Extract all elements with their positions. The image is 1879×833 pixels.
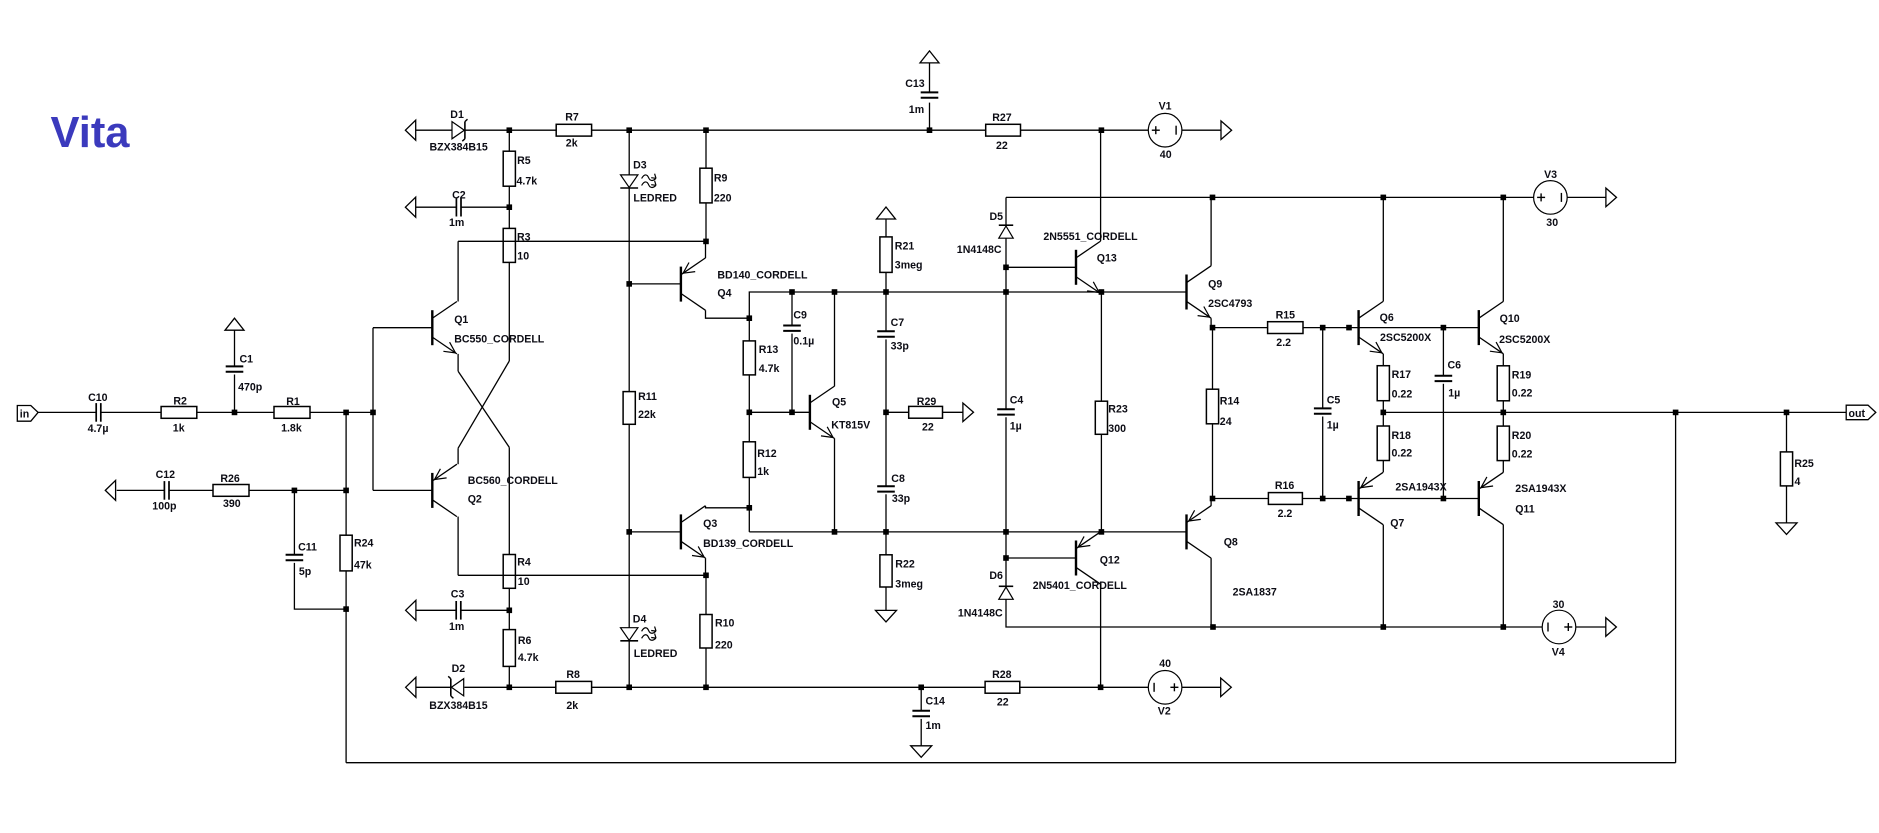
svg-text:BC550_CORDELL: BC550_CORDELL bbox=[454, 333, 545, 345]
svg-text:C11: C11 bbox=[298, 542, 317, 554]
svg-text:BZX384B15: BZX384B15 bbox=[430, 141, 488, 153]
wire C2 to R5/R3 node bbox=[461, 206, 509, 208]
wire bottom rail left bbox=[416, 686, 451, 688]
junction Q9 emitter / R14 / R15 bbox=[1210, 325, 1216, 331]
svg-text:Vita: Vita bbox=[51, 109, 131, 157]
svg-text:220: 220 bbox=[715, 640, 733, 652]
svg-text:R25: R25 bbox=[1794, 458, 1814, 470]
output port flag out bbox=[1846, 405, 1876, 420]
transistor Q6 2SC5200X bbox=[1357, 310, 1359, 345]
svg-text:1N4148C: 1N4148C bbox=[957, 244, 1002, 256]
svg-text:BD139_CORDELL: BD139_CORDELL bbox=[703, 538, 794, 550]
junction base column node bbox=[370, 410, 376, 416]
svg-text:Q12: Q12 bbox=[1100, 555, 1120, 567]
junction bottom rail / R10 bbox=[703, 685, 709, 691]
wire R9 to R3 row bbox=[705, 203, 707, 242]
svg-text:R2: R2 bbox=[173, 396, 187, 408]
svg-text:0.1µ: 0.1µ bbox=[793, 335, 814, 347]
wire V4 to arrow bbox=[1576, 626, 1606, 628]
junction C11 top bbox=[292, 488, 298, 494]
svg-text:BD140_CORDELL: BD140_CORDELL bbox=[717, 270, 808, 282]
wire R13 to Q5 base node bbox=[748, 375, 750, 442]
junction bottom rail / C14 bbox=[918, 685, 924, 691]
svg-text:1m: 1m bbox=[449, 621, 464, 633]
ground below R22 bbox=[876, 610, 897, 622]
svg-text:30: 30 bbox=[1553, 599, 1565, 611]
junction C6 bottom bbox=[1441, 496, 1447, 502]
resistor R16 2.2 bbox=[1268, 493, 1302, 505]
wire arrow to C3 bbox=[416, 609, 456, 611]
wire R23 to Vbe rail bbox=[1100, 434, 1102, 532]
wire R23 top bbox=[1100, 292, 1102, 401]
wire D5 to C4 bbox=[1005, 238, 1007, 409]
wire Q2 collector down bbox=[457, 517, 459, 576]
svg-text:R15: R15 bbox=[1276, 309, 1296, 321]
wire C11 vertical bbox=[293, 490, 295, 554]
capacitor C9 0.1u bbox=[783, 325, 801, 327]
resistor R14 24 bbox=[1206, 389, 1218, 424]
svg-text:0.22: 0.22 bbox=[1512, 388, 1533, 400]
svg-text:Q9: Q9 bbox=[1208, 278, 1222, 290]
wire C9 top bbox=[791, 292, 793, 326]
svg-text:R29: R29 bbox=[917, 396, 937, 408]
wire R14 to R16 node bbox=[1212, 424, 1214, 499]
svg-text:C9: C9 bbox=[793, 310, 807, 322]
wire C5 top bbox=[1322, 328, 1324, 409]
svg-text:2SC5200X: 2SC5200X bbox=[1499, 334, 1550, 346]
svg-text:22: 22 bbox=[997, 697, 1009, 709]
wire Q2 collector row y=575 bbox=[458, 574, 706, 576]
wire R25 top bbox=[1786, 412, 1788, 452]
wire C6 top bbox=[1442, 328, 1444, 376]
wire D2 to R8 bbox=[464, 686, 556, 688]
capacitor C6 1u bbox=[1435, 375, 1453, 377]
svg-text:1m: 1m bbox=[926, 720, 941, 732]
wire feedback bottom long horizontal y=762.7 bbox=[346, 762, 1676, 764]
wire Q12 base bbox=[1006, 557, 1076, 559]
wire C7 top bbox=[885, 292, 887, 331]
svg-text:V2: V2 bbox=[1158, 706, 1171, 718]
capacitor C5 1u bbox=[1314, 407, 1332, 409]
svg-text:1µ: 1µ bbox=[1327, 419, 1339, 431]
capacitor C1 470p bbox=[226, 365, 244, 367]
wire Q8 emitter stub up bbox=[1210, 499, 1212, 506]
terminal arrow V3 right bbox=[1606, 188, 1617, 207]
junction output row / R19 / R20 bbox=[1501, 410, 1507, 416]
svg-text:D4: D4 bbox=[633, 614, 647, 626]
svg-text:1µ: 1µ bbox=[1010, 420, 1022, 432]
wire R10 to bottom rail bbox=[705, 648, 707, 687]
svg-text:D5: D5 bbox=[990, 211, 1004, 223]
junction top rail / R5 column bbox=[507, 127, 513, 133]
wire R16 to Q7/Q11 bases bbox=[1302, 498, 1478, 500]
wire C8 to Vbe rail bbox=[885, 494, 887, 532]
svg-text:2SA1837: 2SA1837 bbox=[1233, 587, 1277, 599]
junction 30V rail / Q10 collector bbox=[1501, 195, 1507, 201]
junction Q7 base bbox=[1346, 496, 1352, 502]
wire C13 to top rail bbox=[929, 103, 931, 131]
wire R20 to Q11 emitter bbox=[1502, 461, 1504, 473]
wire C1 to input row bbox=[234, 375, 236, 413]
terminal arrow R29 right bbox=[963, 403, 974, 422]
junction C9 bottom bbox=[789, 410, 795, 416]
wire C4 to D6 bbox=[1005, 417, 1007, 586]
svg-text:C10: C10 bbox=[88, 392, 108, 404]
svg-text:2k: 2k bbox=[566, 700, 578, 712]
junction Vbe rail / Q5 emitter bbox=[832, 529, 838, 535]
wire feedback node vertical x=346 bbox=[345, 412, 347, 535]
svg-text:1µ: 1µ bbox=[1448, 388, 1460, 400]
svg-text:470p: 470p bbox=[238, 382, 263, 394]
wire C8 top bbox=[885, 412, 887, 486]
wire Q13 collector to top rail bbox=[1100, 130, 1102, 241]
wire R10 column bbox=[705, 575, 707, 614]
wire in to C10 bbox=[38, 411, 96, 413]
svg-text:4.7k: 4.7k bbox=[517, 176, 538, 188]
junction top rail / Q13 collector column bbox=[1099, 127, 1105, 133]
wire top 30V rail y=197.4 bbox=[1006, 196, 1534, 198]
wire feedback vertical from output x=1675.6 bbox=[1675, 412, 1677, 762]
resistor R13 4.7k bbox=[743, 341, 755, 375]
svg-text:390: 390 bbox=[223, 498, 241, 510]
junction top rail / D3 column bbox=[626, 127, 632, 133]
wire D3 top rail to LED bbox=[628, 130, 630, 175]
wire Q8 collector down to -30V rail bbox=[1210, 558, 1212, 627]
svg-text:R12: R12 bbox=[757, 448, 777, 460]
svg-text:30: 30 bbox=[1546, 217, 1558, 229]
wire Q6 emitter to R17 bbox=[1382, 354, 1384, 366]
svg-text:33p: 33p bbox=[891, 340, 910, 352]
junction C5 bottom bbox=[1320, 496, 1326, 502]
svg-text:R22: R22 bbox=[895, 558, 915, 570]
svg-text:R13: R13 bbox=[759, 344, 779, 356]
svg-text:C5: C5 bbox=[1327, 395, 1341, 407]
svg-text:22: 22 bbox=[922, 421, 934, 433]
svg-text:V4: V4 bbox=[1552, 646, 1565, 658]
junction Q4 base node bbox=[626, 281, 632, 287]
wire C5 bottom bbox=[1322, 417, 1324, 499]
wire R25 to ground bbox=[1786, 486, 1788, 523]
wire Q9 collector up to 30V rail bbox=[1210, 197, 1212, 265]
power arrow above C1 bbox=[225, 318, 244, 330]
ground below R25 bbox=[1776, 523, 1797, 535]
svg-text:R28: R28 bbox=[992, 669, 1012, 681]
capacitor C7 33p bbox=[877, 330, 895, 332]
wire R11 to Q3 base and D4 bbox=[628, 424, 630, 627]
wire Q7 collector to -30V rail bbox=[1382, 525, 1384, 627]
wire R28 to V2 bbox=[1020, 686, 1149, 688]
capacitor C8 33p bbox=[877, 485, 895, 487]
wire C7 to R29 node bbox=[885, 339, 887, 412]
junction C6 top bbox=[1441, 325, 1447, 331]
svg-text:Q7: Q7 bbox=[1390, 518, 1404, 530]
svg-text:BC560_CORDELL: BC560_CORDELL bbox=[468, 475, 559, 487]
wire Q9 emitter stub down bbox=[1210, 318, 1212, 327]
junction R29 node bbox=[883, 410, 889, 416]
junction Q5 base row / R13 / R12 bbox=[747, 410, 753, 416]
svg-text:out: out bbox=[1849, 408, 1866, 420]
wire Q10 collector to 30V rail bbox=[1502, 197, 1504, 301]
voltage source V2 40 bbox=[1148, 671, 1182, 705]
wire R14 column bbox=[1212, 328, 1214, 390]
junction R3 row / R9 / Q4 emitter bbox=[703, 239, 709, 245]
svg-text:22k: 22k bbox=[638, 409, 656, 421]
junction Q12 base node bbox=[1003, 555, 1009, 561]
transistor Q7 2SA1943X (PNP) bbox=[1357, 481, 1359, 516]
transistor Q11 2SA1943X (PNP) bbox=[1478, 481, 1480, 516]
svg-text:33p: 33p bbox=[892, 493, 911, 505]
diode D1 BZX384B15 (zener) bbox=[452, 122, 464, 139]
junction C5 top bbox=[1320, 325, 1326, 331]
junction mid rail / Q13 emitter bbox=[1099, 289, 1105, 295]
svg-text:R14: R14 bbox=[1220, 395, 1240, 407]
transistor Q1 BC550_CORDELL bbox=[431, 310, 433, 345]
svg-text:Q1: Q1 bbox=[454, 314, 468, 326]
junction C1 node bbox=[232, 410, 238, 416]
junction Q13 base node bbox=[1003, 265, 1009, 271]
svg-text:Q3: Q3 bbox=[703, 518, 717, 530]
svg-text:D2: D2 bbox=[452, 663, 466, 675]
capacitor C4 1u bbox=[997, 408, 1015, 410]
wire R22 to ground bbox=[885, 587, 887, 610]
wire R12 to Vbe rail bbox=[748, 477, 750, 532]
svg-text:LEDRED: LEDRED bbox=[633, 193, 677, 205]
wire C12 to R26 bbox=[169, 489, 213, 491]
resistor R22 3meg bbox=[880, 555, 892, 587]
resistor R25 4 bbox=[1780, 452, 1792, 486]
svg-text:220: 220 bbox=[714, 192, 732, 204]
junction bottom rail / Q12 collector bbox=[1098, 685, 1104, 691]
resistor R15 2.2 bbox=[1268, 322, 1303, 334]
svg-text:24: 24 bbox=[1220, 416, 1232, 428]
svg-text:2.2: 2.2 bbox=[1276, 337, 1291, 349]
svg-text:1k: 1k bbox=[173, 423, 185, 435]
junction mid rail / D5 column bbox=[1003, 289, 1009, 295]
capacitor C10 4.7u bbox=[95, 403, 97, 422]
capacitor C13 1m bbox=[921, 91, 939, 93]
wire R8 to R28 along bottom rail bbox=[592, 686, 986, 688]
wire R26 to feedback node bbox=[249, 489, 346, 491]
resistor R21 3meg bbox=[880, 237, 892, 273]
resistor R28 22 bbox=[985, 681, 1020, 693]
svg-text:2N5551_CORDELL: 2N5551_CORDELL bbox=[1043, 231, 1138, 243]
junction bottom rail / R6 bbox=[507, 685, 513, 691]
svg-text:C1: C1 bbox=[240, 353, 254, 365]
svg-text:C8: C8 bbox=[891, 473, 905, 485]
resistor R8 2k bbox=[556, 681, 592, 693]
svg-text:R24: R24 bbox=[354, 537, 374, 549]
svg-text:C14: C14 bbox=[926, 696, 946, 708]
wire Q11 collector to -30V rail bbox=[1502, 525, 1504, 627]
svg-text:40: 40 bbox=[1160, 149, 1172, 161]
capacitor C3 1m bbox=[455, 601, 457, 620]
junction Vbe rail / D5-C4 column bbox=[1003, 529, 1009, 535]
diode D6 1N4148C bbox=[999, 585, 1013, 587]
svg-text:Q10: Q10 bbox=[1500, 313, 1520, 325]
svg-text:4: 4 bbox=[1795, 476, 1801, 488]
wire Vbe rail y=531.9 bbox=[749, 531, 1186, 533]
resistor R18 0.22 bbox=[1377, 426, 1389, 461]
svg-text:10: 10 bbox=[517, 250, 529, 262]
wire D3 to R11 bbox=[628, 188, 630, 392]
svg-text:R7: R7 bbox=[565, 112, 579, 124]
wire R17 to output row bbox=[1382, 401, 1384, 426]
resistor R2 1k bbox=[161, 407, 197, 419]
wire Q3 emitter stub bbox=[705, 558, 707, 575]
wire arrow to C2 bbox=[416, 206, 457, 208]
svg-text:1k: 1k bbox=[757, 466, 769, 478]
LED D4 LEDRED bbox=[621, 628, 638, 641]
svg-text:10: 10 bbox=[518, 576, 530, 588]
resistor R24 47k bbox=[340, 535, 352, 571]
svg-text:40: 40 bbox=[1159, 658, 1171, 670]
transistor Q2 BC560_CORDELL bbox=[431, 473, 433, 508]
wire R3 bottom to crossover bbox=[508, 262, 510, 361]
svg-text:R18: R18 bbox=[1392, 430, 1412, 442]
svg-text:R10: R10 bbox=[715, 618, 735, 630]
svg-text:C12: C12 bbox=[156, 469, 176, 481]
wire R1 to base column bbox=[310, 411, 373, 413]
resistor R26 390 bbox=[213, 485, 249, 497]
wire Q3 base bbox=[629, 531, 681, 533]
wire output row y=412.4 bbox=[1383, 411, 1846, 413]
svg-text:R20: R20 bbox=[1512, 430, 1532, 442]
terminal arrow V1 right bbox=[1221, 121, 1232, 140]
resistor R4 10 (in Q1 emitter path) bbox=[503, 555, 515, 589]
resistor R10 220 bbox=[700, 615, 712, 649]
svg-text:R21: R21 bbox=[895, 240, 915, 252]
terminal arrow V4 right bbox=[1606, 618, 1617, 637]
svg-text:3meg: 3meg bbox=[895, 260, 923, 272]
wire Q1 emitter to R4 crossover diagonal bbox=[457, 354, 459, 371]
resistor R20 0.22 bbox=[1497, 426, 1509, 461]
svg-text:4.7k: 4.7k bbox=[518, 652, 539, 664]
wire R7 to R27 along top rail bbox=[592, 129, 986, 131]
wire R4 to R6 bbox=[508, 588, 510, 629]
wire R27 to V1 bbox=[1021, 129, 1149, 131]
svg-text:R23: R23 bbox=[1108, 403, 1128, 415]
svg-text:2SC5200X: 2SC5200X bbox=[1380, 332, 1431, 344]
junction C2 / R5 / R3 bbox=[507, 204, 513, 210]
svg-text:22: 22 bbox=[996, 140, 1008, 152]
wire C14 to ground bbox=[920, 719, 922, 746]
junction Q4 collector / R13 top bbox=[747, 315, 753, 321]
wire Q5 emitter down to Vbe rail bbox=[834, 438, 836, 532]
svg-text:V3: V3 bbox=[1544, 169, 1557, 181]
junction output row / R25 bbox=[1784, 410, 1790, 416]
svg-text:R9: R9 bbox=[714, 173, 728, 185]
svg-text:Q13: Q13 bbox=[1097, 252, 1117, 264]
svg-text:R1: R1 bbox=[286, 396, 300, 408]
junction C3 node bbox=[507, 608, 513, 614]
svg-text:Q11: Q11 bbox=[1515, 504, 1535, 516]
wire D5 column top bbox=[1005, 197, 1007, 225]
svg-text:0.22: 0.22 bbox=[1512, 449, 1533, 461]
svg-text:2N5401_CORDELL: 2N5401_CORDELL bbox=[1033, 580, 1128, 592]
wire C11 bottom corner bbox=[294, 563, 346, 609]
transistor Q10 2SC5200X bbox=[1478, 310, 1480, 345]
svg-text:C6: C6 bbox=[1448, 359, 1462, 371]
wire V3 to arrow bbox=[1567, 196, 1606, 198]
svg-text:0.22: 0.22 bbox=[1392, 448, 1413, 460]
junction -30V rail / Q8 collector bbox=[1210, 624, 1216, 630]
transistor Q13 2N5551_CORDELL bbox=[1075, 250, 1077, 285]
resistor R6 4.7k bbox=[503, 630, 515, 667]
terminal arrow D2 left bbox=[406, 677, 416, 697]
svg-text:in: in bbox=[20, 409, 29, 421]
wire V1 to output arrow bbox=[1182, 129, 1221, 131]
wire R5 column from top rail bbox=[508, 130, 510, 151]
svg-text:R5: R5 bbox=[517, 155, 531, 167]
resistor R1 1.8k bbox=[274, 407, 310, 419]
wire Q2 base bbox=[373, 489, 432, 491]
wire C14 top bbox=[920, 687, 922, 711]
power arrow above R21 bbox=[877, 207, 896, 219]
wire R6 to bottom rail bbox=[508, 666, 510, 687]
wire Q4 base bbox=[629, 283, 681, 285]
input port flag in bbox=[17, 406, 38, 422]
junction -30V rail / Q11 collector bbox=[1501, 624, 1507, 630]
svg-text:5p: 5p bbox=[299, 566, 312, 578]
svg-text:D6: D6 bbox=[989, 570, 1003, 582]
svg-text:2.2: 2.2 bbox=[1278, 508, 1293, 520]
wire V2 to arrow bbox=[1182, 686, 1221, 688]
wire R15 to Q6/Q10 bases bbox=[1303, 327, 1479, 329]
svg-text:C4: C4 bbox=[1010, 395, 1024, 407]
wire R19 to output row bbox=[1502, 401, 1504, 426]
svg-text:Q6: Q6 bbox=[1380, 312, 1394, 324]
wire Q3 collector to R12 node bbox=[706, 506, 750, 508]
svg-text:BZX384B15: BZX384B15 bbox=[429, 700, 487, 712]
terminal arrow V2 right bbox=[1221, 678, 1232, 697]
capacitor C11 5p bbox=[286, 554, 304, 556]
svg-text:C3: C3 bbox=[451, 589, 465, 601]
junction Q8 emitter / R14 / R16 bbox=[1210, 496, 1216, 502]
svg-text:2k: 2k bbox=[566, 137, 578, 149]
wire Q5 base row bbox=[749, 411, 810, 413]
wire R2 to R1 bbox=[197, 411, 274, 413]
junction mid rail / C9 bbox=[789, 289, 795, 295]
junction R12 / Q3 collector bbox=[747, 505, 753, 511]
svg-text:R27: R27 bbox=[992, 112, 1012, 124]
resistor R17 0.22 bbox=[1377, 366, 1389, 401]
svg-text:D3: D3 bbox=[633, 159, 647, 171]
resistor R7 2k bbox=[556, 124, 591, 136]
junction 30V rail / Q6 collector bbox=[1381, 195, 1387, 201]
svg-text:R8: R8 bbox=[566, 669, 580, 681]
junction 30V rail / Q9 collector bbox=[1210, 195, 1216, 201]
wire R9 column bbox=[705, 130, 707, 168]
wire R18 to Q7 emitter bbox=[1382, 461, 1384, 473]
junction top rail / C13 bbox=[927, 127, 933, 133]
wire Q4 collector to R13 node bbox=[706, 310, 750, 318]
terminal arrow C12 left bbox=[105, 480, 115, 500]
junction Vbe rail / C8 bbox=[883, 529, 889, 535]
wire C9 bottom bbox=[791, 334, 793, 413]
junction R1 / R24 feedback node bbox=[343, 410, 349, 416]
svg-text:C13: C13 bbox=[905, 78, 925, 90]
wire R24 bottom bbox=[345, 571, 347, 763]
resistor R19 0.22 bbox=[1497, 366, 1509, 401]
voltage source V3 30 bbox=[1534, 181, 1568, 215]
svg-text:R19: R19 bbox=[1512, 370, 1532, 382]
wire R16 left bbox=[1213, 498, 1269, 500]
wire C3 to R4/R6 node bbox=[461, 609, 509, 611]
svg-text:D1: D1 bbox=[450, 109, 464, 121]
svg-text:Q4: Q4 bbox=[717, 287, 731, 299]
wire C6 bottom bbox=[1442, 384, 1444, 499]
svg-text:R4: R4 bbox=[517, 557, 531, 569]
